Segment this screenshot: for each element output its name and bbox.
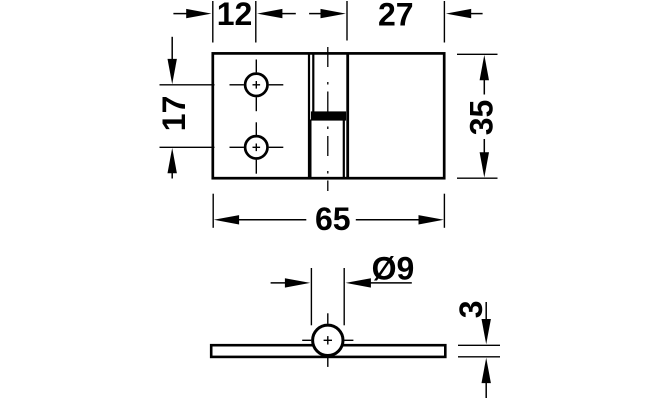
knuckle gap filled bar <box>311 111 346 120</box>
dimension 27 extension line left <box>346 1 348 41</box>
dimension 12 extension line right <box>255 1 257 43</box>
dimension 27 left arrow <box>309 9 346 18</box>
dimension 3 bottom arrow <box>482 358 491 398</box>
dimension 17 lower arrow <box>168 148 177 179</box>
dimension 3 top arrow <box>482 302 491 344</box>
dimension 35 extension line bottom <box>457 177 498 179</box>
hole H2 horizontal centerline <box>230 146 284 148</box>
svg-text:3: 3 <box>453 300 489 318</box>
dimension 17 extension line bottom <box>160 146 215 148</box>
dimension 35 line lower segment with down arrow <box>480 139 489 178</box>
svg-text:Ø9: Ø9 <box>372 250 415 286</box>
dimension 12 right arrow <box>257 9 296 18</box>
hole H2 vertical centerline <box>255 122 257 173</box>
hole H1 circle <box>245 74 267 96</box>
svg-text:27: 27 <box>378 0 414 32</box>
dimension 12 left arrow <box>173 9 211 18</box>
svg-text:35: 35 <box>464 100 500 136</box>
dimension 65 line left segment with left arrow <box>214 215 306 224</box>
lower knuckle right edge <box>343 120 345 179</box>
dimension 17 extension line top <box>160 84 215 86</box>
dimension 65 extension line left <box>212 194 214 228</box>
hole H1 horizontal centerline <box>230 84 284 86</box>
left leaf right edge <box>308 53 310 178</box>
side view knuckle horizontal centerline <box>302 339 353 341</box>
dimension D9 extension line right <box>343 268 345 325</box>
dimension 3 extension line top <box>458 344 500 346</box>
dimension D9 extension line left <box>310 268 312 325</box>
dimension 27 extension line right <box>443 1 445 43</box>
dimension 12 extension line left <box>212 1 214 43</box>
dimension D9 right arrow with leader <box>346 278 412 287</box>
side view knuckle circle <box>313 325 343 355</box>
svg-text:17: 17 <box>156 96 192 132</box>
upper knuckle left edge <box>312 53 314 112</box>
dimension 65 extension line right <box>443 194 445 228</box>
hole H1 vertical centerline <box>255 60 257 112</box>
dimension 35 extension line top <box>457 53 498 55</box>
dimension 65 line right segment with right arrow <box>356 215 444 224</box>
lower knuckle left edge <box>310 120 312 179</box>
dimension 3 extension line bottom <box>458 356 500 358</box>
right leaf left edge <box>346 53 349 178</box>
dimension 17 upper arrow <box>168 37 177 84</box>
svg-text:65: 65 <box>315 201 351 237</box>
side view plate bar <box>211 345 445 357</box>
dimension 35 line upper segment with up arrow <box>480 55 489 95</box>
hinge pin centerline (dash-dot) <box>327 47 329 191</box>
dimension D9 left arrow <box>271 278 311 287</box>
top view: hinge plate outer outline <box>213 53 444 178</box>
hole H2 circle <box>245 136 267 158</box>
side view knuckle vertical centerline <box>327 313 329 367</box>
svg-text:12: 12 <box>217 0 253 32</box>
dimension 27 right arrow <box>446 9 483 18</box>
